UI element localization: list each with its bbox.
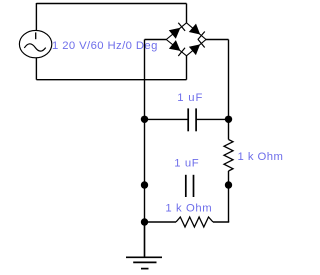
label R1 value "1 k Ohm" [238,151,284,163]
AC source V1 [19,30,51,57]
diode D3 bottom-left (left to bottom) [169,40,185,56]
wire source top lead [35,3,37,30]
wire left vertical bus [144,40,146,258]
wire top rail [36,3,186,5]
svg-text:1 uF: 1 uF [174,158,199,170]
wire bottom AC run to bridge [36,79,186,81]
resistor R1 1 k Ohm (vertical right) [224,140,233,223]
node junction dot left-mid [141,181,148,188]
wire bridge top lead [186,4,188,23]
wire source bottom lead [35,58,37,80]
wire capacitor row right [196,118,228,120]
label R2 value "1 k Ohm" [165,202,212,214]
capacitor C2 (floating, plates only) [186,175,194,197]
node junction dot right-cap [225,116,232,123]
wire right vertical upper [228,40,230,140]
label V1 value "1 20 V/60 Hz/0 Deg" [52,40,158,52]
svg-text:1 k Ohm: 1 k Ohm [165,202,212,214]
svg-text:1 uF: 1 uF [177,92,203,104]
wire ground lead [144,222,146,257]
diode D4 bottom-right (bottom to right) [189,39,205,55]
node junction dot bottom-left [141,218,148,225]
node junction dot right-mid [225,181,232,188]
label C2 value "1 uF" [174,158,199,170]
resistor R2 1 k Ohm (horizontal bottom) [176,217,213,227]
wire bridge bottom lead [186,56,188,80]
wire bottom row left lead [145,221,177,223]
bridge rectifier diamond outline [166,23,206,56]
wire bottom row right lead [213,221,229,223]
diode D1 top-left (left to top) [169,23,185,39]
capacitor C1 (series, horizontal) [188,108,196,131]
label C1 value "1 uF" [177,92,203,104]
wire bridge left lead [145,39,167,41]
wire bridge right lead [206,39,229,41]
svg-text:1 20 V/60 Hz/0 Deg: 1 20 V/60 Hz/0 Deg [52,40,158,52]
ground symbol [126,257,162,268]
diode D2 top-right (top to right) [189,24,205,40]
svg-text:1 k Ohm: 1 k Ohm [238,151,284,163]
wire capacitor row left [145,118,189,120]
node junction dot left-cap [141,116,148,123]
